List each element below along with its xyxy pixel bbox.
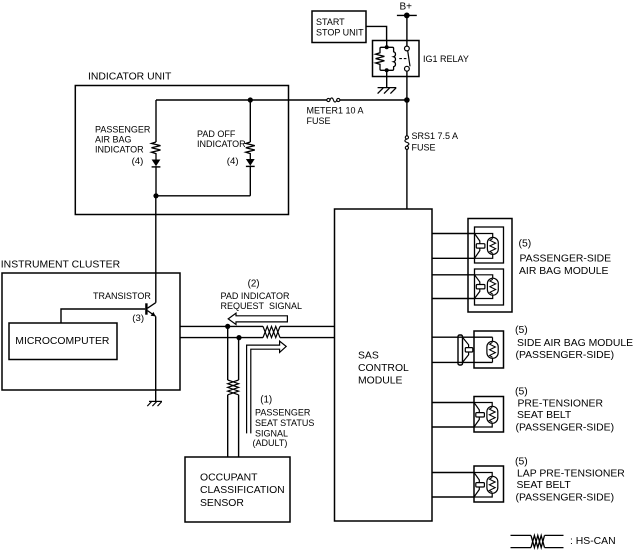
svg-text:: HS-CAN: : HS-CAN [570, 536, 616, 547]
squib (pre-tensioner) [474, 403, 498, 428]
svg-text:OCCUPANT: OCCUPANT [200, 473, 258, 484]
label METER1 fuse [307, 106, 364, 127]
svg-text:(4): (4) [132, 156, 144, 167]
side air bag module box [474, 331, 504, 368]
svg-text:SIGNAL: SIGNAL [255, 429, 288, 439]
svg-text:PASSENGER: PASSENGER [255, 407, 311, 417]
junction indicator bottom [153, 193, 158, 198]
wire microcomputer to transistor base [61, 309, 145, 323]
svg-text:AIR BAG: AIR BAG [95, 135, 132, 145]
lap pre-tensioner seat belt box [474, 466, 504, 502]
label side air bag module [515, 325, 633, 361]
svg-text:(2): (2) [248, 278, 260, 289]
svg-text:(4): (4) [227, 156, 239, 167]
label passenger-side air bag module [519, 239, 612, 277]
svg-text:IG1 RELAY: IG1 RELAY [423, 54, 469, 64]
relay coil [376, 41, 396, 73]
svg-text:(5): (5) [515, 457, 528, 468]
junction pad indicator wire [225, 324, 230, 329]
svg-text:STOP UNIT: STOP UNIT [316, 27, 364, 37]
svg-text:(PASSENGER-SIDE): (PASSENGER-SIDE) [516, 422, 615, 433]
svg-text:(5): (5) [515, 325, 528, 336]
svg-text:B+: B+ [400, 2, 413, 13]
label passenger air bag indicator [95, 125, 151, 168]
wire main horizontal y=100 [156, 99, 327, 101]
squib 2 inner box [475, 269, 504, 305]
indicator unit box [75, 86, 288, 215]
squib (lap pre-tensioner) [474, 473, 498, 498]
wires SAS to side air bag module [432, 337, 493, 362]
wire junction to SRS1 fuse [406, 100, 408, 136]
twisted pair symbol (OCS wires) [228, 380, 239, 395]
svg-text:(PASSENGER-SIDE): (PASSENGER-SIDE) [516, 350, 615, 361]
transistor Q1 [146, 303, 155, 317]
svg-text:PASSENGER-SIDE: PASSENGER-SIDE [520, 254, 612, 265]
wires SAS to passenger-side air bag module [432, 234, 475, 299]
twisted pair symbol (cluster-SAS wires) [263, 326, 280, 337]
arrow (2) pad indicator request signal [228, 313, 287, 324]
squib (side air bag) [463, 337, 499, 362]
svg-text:SIDE AIR BAG MODULE: SIDE AIR BAG MODULE [517, 338, 633, 349]
svg-text:MODULE: MODULE [358, 376, 403, 387]
junction seat status wire [236, 335, 241, 340]
wire coil to ground [386, 70, 388, 87]
ground (instrument cluster) [147, 401, 162, 406]
label pre-tensioner seat belt [515, 386, 614, 433]
svg-text:TRANSISTOR: TRANSISTOR [93, 291, 151, 301]
ground (relay coil) [378, 88, 397, 94]
svg-text:START: START [316, 17, 345, 27]
svg-text:PAD INDICATOR: PAD INDICATOR [221, 291, 291, 301]
svg-text:SEAT BELT: SEAT BELT [517, 480, 572, 491]
relay switch [399, 46, 410, 71]
legend HS-CAN twisted pair [511, 535, 564, 547]
svg-text:MICROCOMPUTER: MICROCOMPUTER [15, 336, 110, 347]
svg-text:(PASSENGER-SIDE): (PASSENGER-SIDE) [516, 493, 615, 504]
microcomputer box [9, 323, 117, 360]
wire transistor emitter to ground [155, 316, 157, 401]
passenger air bag indicator branch [152, 100, 161, 196]
fuse METER1 10 A [327, 98, 340, 102]
svg-text:SAS: SAS [358, 351, 379, 362]
wire indicator unit to transistor collector [155, 196, 157, 303]
svg-text:PAD OFF: PAD OFF [197, 129, 236, 139]
junction main [404, 97, 410, 103]
svg-text:SEAT BELT: SEAT BELT [517, 410, 572, 421]
squib 1 (passenger air bag) [475, 234, 499, 259]
svg-text:INDICATOR UNIT: INDICATOR UNIT [88, 71, 172, 82]
passenger-side air bag module outer box [468, 219, 512, 313]
svg-text:(1): (1) [260, 394, 272, 405]
svg-text:FUSE: FUSE [412, 142, 436, 152]
svg-text:SENSOR: SENSOR [200, 498, 244, 509]
svg-text:(ADULT): (ADULT) [253, 438, 288, 448]
svg-text:(5): (5) [519, 239, 532, 250]
svg-text:(5): (5) [515, 386, 528, 397]
svg-text:INDICATOR: INDICATOR [197, 139, 246, 149]
side air bag module connector bar [458, 335, 463, 365]
fuse SRS1 7.5 A [405, 136, 409, 150]
wire left of OCS pair [227, 326, 229, 457]
svg-text:INDICATOR: INDICATOR [95, 145, 144, 155]
svg-text:CONTROL: CONTROL [358, 363, 409, 374]
svg-text:SEAT STATUS: SEAT STATUS [255, 418, 314, 428]
wire start stop unit to relay coil [366, 26, 387, 40]
svg-text:SRS1 7.5 A: SRS1 7.5 A [412, 131, 459, 141]
label lap pre-tensioner seat belt [515, 457, 625, 504]
start stop unit U2 [312, 11, 366, 43]
arrow (1) passenger seat status signal [247, 341, 287, 433]
svg-text:METER1 10 A: METER1 10 A [307, 106, 364, 116]
wire fuse to junction [340, 99, 407, 101]
occupant classification sensor box [185, 457, 290, 522]
wire SRS1 fuse to SAS control module [406, 149, 408, 209]
SAS control module box [335, 209, 433, 521]
wires SAS to pre-tensioner seat belt [432, 403, 474, 428]
svg-text:PRE-TENSIONER: PRE-TENSIONER [518, 398, 604, 409]
squib 1 inner box [475, 227, 504, 263]
squib 2 (passenger air bag) [475, 275, 499, 299]
label (2) pad indicator request signal [221, 278, 303, 311]
svg-text:CLASSIFICATION: CLASSIFICATION [200, 485, 285, 496]
svg-text:FUSE: FUSE [307, 116, 331, 126]
label pad off indicator [197, 129, 246, 167]
svg-text:PASSENGER: PASSENGER [95, 125, 151, 135]
wire relay switch down to junction [406, 71, 408, 100]
label TRANSISTOR (3) [93, 291, 151, 324]
svg-text:LAP PRE-TENSIONER: LAP PRE-TENSIONER [517, 468, 625, 479]
label SRS1 fuse [412, 131, 459, 152]
wire cluster to SAS bottom of pair [180, 337, 335, 339]
svg-text:INSTRUMENT CLUSTER: INSTRUMENT CLUSTER [1, 259, 121, 270]
relay IG1 box [373, 41, 420, 77]
wire right of OCS pair [238, 338, 240, 457]
svg-text:REQUEST SIGNAL: REQUEST SIGNAL [221, 301, 303, 311]
node B+ [397, 2, 417, 19]
wire B+ to relay switch [406, 15, 408, 46]
label (1) passenger seat status signal [253, 394, 315, 448]
pre-tensioner seat belt box [474, 397, 504, 433]
svg-text:(3): (3) [132, 313, 144, 324]
wires SAS to lap pre-tensioner seat belt [432, 473, 474, 498]
svg-text:AIR BAG MODULE: AIR BAG MODULE [519, 266, 609, 277]
instrument cluster box [2, 273, 180, 390]
wire cluster to SAS top of pair [180, 325, 335, 327]
pad off indicator branch [156, 97, 255, 195]
